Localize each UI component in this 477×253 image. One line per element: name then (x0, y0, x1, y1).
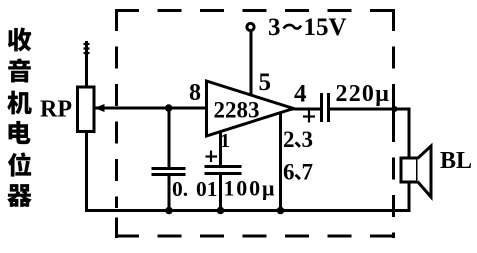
svg-text:2: 2 (283, 127, 295, 152)
svg-text:0.: 0. (172, 177, 188, 201)
svg-text:6: 6 (283, 160, 295, 185)
svg-text:15V: 15V (304, 14, 347, 41)
svg-text:5: 5 (259, 69, 272, 96)
svg-text:1: 1 (220, 130, 230, 152)
svg-text:BL: BL (440, 148, 472, 174)
svg-text:3: 3 (268, 14, 281, 41)
svg-text:01: 01 (196, 177, 218, 201)
svg-text:2283: 2283 (214, 98, 260, 123)
svg-text:3: 3 (302, 127, 314, 152)
svg-text:220µ: 220µ (336, 81, 391, 107)
svg-text:4: 4 (294, 81, 307, 108)
svg-text:RP: RP (40, 97, 72, 123)
svg-text:7: 7 (302, 160, 314, 185)
svg-text:100µ: 100µ (224, 176, 277, 201)
svg-text:8: 8 (189, 80, 201, 106)
